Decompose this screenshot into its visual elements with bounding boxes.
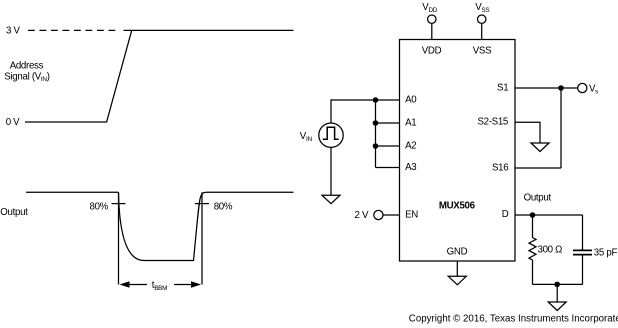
wire VDD terminal to pin VDD — [431, 23, 433, 39]
svg-text:300 Ω: 300 Ω — [538, 245, 563, 256]
svg-text:MUX506: MUX506 — [439, 201, 476, 212]
node A0 junction — [373, 97, 379, 103]
svg-text:VSS: VSS — [473, 46, 492, 57]
svg-text:80%: 80% — [90, 202, 109, 213]
wire A3 — [376, 167, 400, 169]
svg-text:3 V: 3 V — [6, 26, 20, 37]
left measurement line — [118, 192, 120, 284]
node A2 junction — [373, 143, 379, 149]
svg-text:Output: Output — [524, 193, 552, 204]
svg-text:S16: S16 — [492, 162, 508, 173]
svg-text:Signal (VIN): Signal (VIN) — [4, 71, 49, 83]
wire A1 — [376, 122, 400, 124]
resistor 300 ohm — [529, 238, 536, 261]
svg-text:VIN: VIN — [300, 131, 313, 143]
svg-text:GND: GND — [447, 246, 468, 257]
right measurement line — [201, 192, 203, 284]
svg-text:Address: Address — [10, 60, 44, 71]
ground below S2-S15 — [531, 143, 549, 152]
wire S16 — [515, 167, 561, 169]
wire VIN source to A0 — [331, 100, 376, 123]
wire EN — [383, 214, 400, 216]
left 80% tick — [112, 203, 126, 205]
pulse source VIN — [319, 123, 343, 147]
svg-text:A1: A1 — [405, 117, 416, 128]
node D junction — [530, 212, 536, 218]
output waveform decay curve — [119, 192, 294, 260]
tBBM right arrow — [174, 281, 201, 287]
wire A2 — [376, 145, 400, 147]
address signal high level wire — [124, 29, 294, 31]
node A1 junction — [373, 120, 379, 126]
svg-text:S1: S1 — [497, 83, 508, 94]
right 80% tick — [195, 203, 209, 205]
svg-text:A0: A0 — [405, 94, 417, 105]
svg-text:Vs: Vs — [589, 84, 598, 96]
svg-text:D: D — [502, 209, 509, 220]
VSS terminal — [478, 15, 486, 23]
wire capacitor to bottom rail — [582, 255, 584, 284]
3 V dashed threshold line — [28, 29, 120, 31]
IC U1 MUX506 box — [400, 40, 516, 262]
wire S1 to Vs terminal — [515, 87, 578, 89]
wire GND pin to ground — [456, 261, 458, 276]
output waveform top-left segment — [26, 191, 118, 193]
svg-text:0 V: 0 V — [6, 117, 20, 128]
node S1 junction — [558, 85, 564, 91]
svg-text:tBBM: tBBM — [152, 280, 167, 292]
svg-text:VDD: VDD — [422, 46, 442, 57]
svg-text:Output: Output — [0, 207, 28, 218]
ground below load — [548, 302, 566, 311]
svg-text:35 pF: 35 pF — [594, 248, 618, 259]
wire VSS terminal to pin VSS — [481, 23, 483, 39]
bottom rail wire — [533, 283, 583, 285]
svg-text:2 V: 2 V — [355, 210, 369, 221]
Vs terminal — [578, 83, 587, 92]
svg-text:S2-S15: S2-S15 — [477, 117, 508, 128]
svg-text:Copyright © 2016, Texas Instru: Copyright © 2016, Texas Instruments Inco… — [409, 314, 618, 325]
wire D to load — [515, 214, 583, 216]
address bus wire — [375, 100, 377, 168]
wire resistor to bottom rail — [532, 260, 534, 284]
wire S1 to S16 — [560, 88, 562, 168]
svg-text:EN: EN — [405, 209, 418, 220]
wire D to capacitor — [582, 215, 584, 250]
svg-text:VDD: VDD — [422, 2, 437, 14]
label Address Signal (VIN) — [4, 60, 49, 82]
tBBM left arrow — [120, 281, 148, 287]
node bottom rail junction — [554, 282, 560, 288]
address signal waveform rising edge — [25, 30, 132, 122]
wire VIN source to ground — [330, 147, 332, 195]
capacitor 35 pF — [573, 250, 592, 254]
EN terminal — [374, 210, 383, 219]
ground below VIN — [322, 195, 340, 204]
svg-text:A2: A2 — [405, 140, 416, 151]
wire D node to resistor — [532, 215, 534, 238]
VDD terminal — [428, 15, 436, 23]
svg-text:80%: 80% — [214, 202, 233, 213]
wire S2-S15 to ground — [515, 122, 540, 143]
wire A0 — [376, 99, 400, 101]
wire bottom rail to ground — [556, 284, 558, 302]
ground below GND pin — [448, 276, 466, 285]
svg-text:VSS: VSS — [475, 2, 489, 14]
svg-text:A3: A3 — [405, 162, 416, 173]
